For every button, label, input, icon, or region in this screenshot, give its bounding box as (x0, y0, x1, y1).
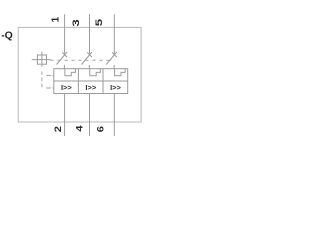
trip linkage dashed to thermal row (46, 74, 54, 76)
svg-text:I>>: I>> (85, 83, 96, 92)
svg-text:6: 6 (95, 126, 105, 132)
trip linkage dashed vertical (41, 71, 43, 89)
manual operator crossed box (32, 52, 51, 67)
terminal label 4 (74, 125, 84, 131)
svg-text:I>>: I>> (110, 83, 121, 92)
breaker contact pole 2 blade (82, 52, 92, 65)
thermal overload element pole 2 (90, 69, 101, 76)
breaker contact pole 3 blade (106, 52, 116, 65)
wire terminal 5 input (113, 14, 115, 54)
terminal label 6 (95, 126, 105, 132)
trip linkage dashed to magnetic row (46, 87, 54, 89)
svg-text:2: 2 (53, 126, 63, 132)
svg-text:I>>: I>> (61, 83, 72, 92)
wire stub pole 2 to trip box (88, 65, 90, 69)
terminal label 1 (51, 16, 62, 22)
wire stub pole 1 to trip box (63, 65, 65, 69)
svg-text:-Q: -Q (1, 29, 13, 41)
thermal overload element pole 3 (115, 69, 126, 76)
svg-text:4: 4 (74, 125, 84, 131)
wire terminal 2 output (64, 94, 66, 137)
wire terminal 3 input (89, 14, 91, 54)
breaker contact pole 1 cross (62, 52, 67, 57)
breaker contact pole 1 blade (57, 52, 67, 65)
wire terminal 4 output (89, 94, 91, 137)
svg-text:5: 5 (94, 19, 104, 26)
breaker contact pole 2 cross (87, 52, 92, 57)
svg-text:1: 1 (51, 16, 62, 22)
terminal label 5 (94, 19, 104, 26)
wire terminal 1 input (64, 14, 66, 54)
enclosure outline of breaker -Q (18, 27, 141, 122)
terminal label 2 (53, 126, 63, 132)
svg-text:3: 3 (71, 19, 81, 26)
wire stub pole 3 to trip box (113, 65, 115, 69)
trip unit box (54, 69, 128, 94)
mechanical linkage dashed line across poles (50, 59, 110, 61)
thermal overload element pole 1 (65, 69, 76, 76)
wire terminal 6 output (113, 94, 115, 137)
terminal label 3 (71, 19, 81, 26)
breaker contact pole 3 cross (112, 52, 117, 57)
